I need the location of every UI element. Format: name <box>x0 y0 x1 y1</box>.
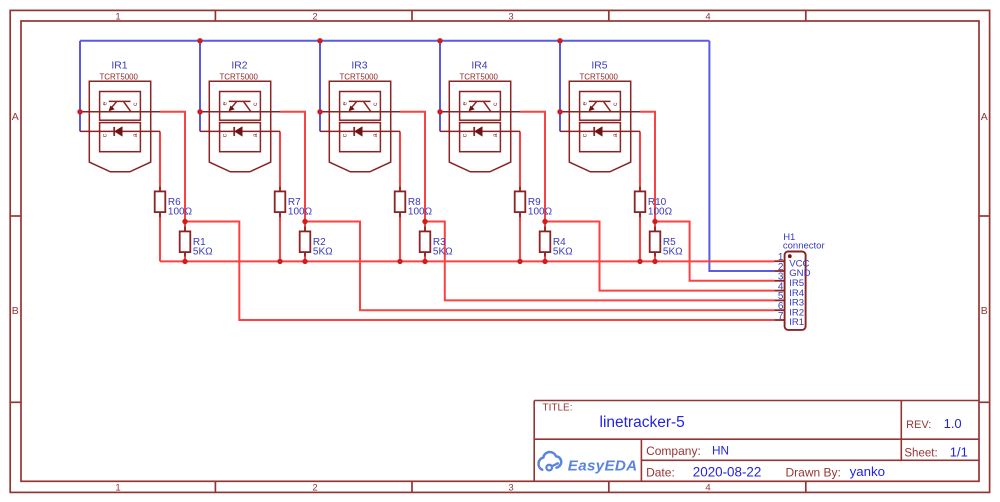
svg-text:1: 1 <box>115 11 120 22</box>
svg-text:5KΩ: 5KΩ <box>553 246 573 257</box>
junction VCC bus x=400 <box>397 259 402 264</box>
wire GND drop to IR4 <box>439 41 441 132</box>
R3 pin stubs <box>424 227 426 257</box>
junction divider node x=655 <box>652 219 657 224</box>
junction divider node x=185 <box>182 219 187 224</box>
svg-text:B: B <box>12 305 19 317</box>
svg-text:100Ω: 100Ω <box>648 206 673 217</box>
svg-text:REV:: REV: <box>906 419 931 431</box>
svg-text:a: a <box>372 133 379 137</box>
svg-text:IR5: IR5 <box>591 60 607 71</box>
svg-text:3: 3 <box>508 11 513 22</box>
pin 4 lead <box>774 290 784 292</box>
pin 5 lead <box>774 299 784 301</box>
junction VCC bus x=305 <box>302 259 307 264</box>
transistor collector lead <box>484 101 491 111</box>
LED box <box>100 123 141 152</box>
IR sensor IR2 TCRT5000 <box>200 60 280 172</box>
junction GND rail x=320 <box>317 38 322 43</box>
LED box <box>580 123 621 152</box>
pin c-a row <box>200 130 280 132</box>
sensor outline <box>569 81 630 172</box>
svg-text:4: 4 <box>705 11 710 22</box>
junction emitter pin x=320 <box>317 109 322 114</box>
wire R5 top stub <box>654 222 656 232</box>
svg-text:2: 2 <box>312 11 317 22</box>
svg-text:IR1: IR1 <box>789 317 804 328</box>
svg-text:linetracker-5: linetracker-5 <box>600 414 685 431</box>
LED diode cathode bar <box>593 127 595 136</box>
LED box <box>220 123 261 152</box>
wire IR3 LED anode to R8 <box>399 131 401 191</box>
svg-text:Drawn By:: Drawn By: <box>786 465 841 479</box>
wire IR3 collector to R pull network <box>400 112 425 222</box>
R10 pin stubs <box>639 187 641 218</box>
R5 pin stubs <box>654 227 656 257</box>
R8 pin stubs <box>399 187 401 218</box>
svg-text:IR2: IR2 <box>231 60 247 71</box>
svg-text:2: 2 <box>312 483 317 494</box>
LED diode triangle <box>355 127 362 136</box>
wire IR2 LED anode to R7 <box>279 131 281 191</box>
wire signal IR3 to connector <box>425 222 774 301</box>
svg-text:B: B <box>981 305 988 317</box>
sensor outline <box>329 81 390 172</box>
svg-text:e: e <box>582 101 589 105</box>
wire R3 top stub <box>424 222 426 232</box>
wire IR4 collector to R pull network <box>520 112 545 222</box>
wire R2 bottom to VCC bus <box>304 252 306 262</box>
emitter arrowhead <box>469 106 475 112</box>
svg-text:e: e <box>102 101 109 105</box>
junction VCC bus x=425 <box>422 259 427 264</box>
IR sensor IR4 TCRT5000 <box>440 60 520 172</box>
EasyEDA logo <box>539 452 638 474</box>
junction divider node x=425 <box>422 219 427 224</box>
transistor Q base bar <box>589 100 611 102</box>
transistor emitter lead <box>592 101 597 107</box>
svg-text:TCRT5000: TCRT5000 <box>219 73 258 82</box>
junction VCC bus x=545 <box>542 259 547 264</box>
wire signal IR2 to connector <box>305 222 774 311</box>
transistor collector lead <box>364 101 371 111</box>
junction VCC bus x=655 <box>652 259 657 264</box>
svg-text:TCRT5000: TCRT5000 <box>99 73 138 82</box>
junction emitter pin x=440 <box>437 109 442 114</box>
transistor Q base bar <box>349 100 371 102</box>
LED diode triangle <box>235 127 242 136</box>
junction VCC bus x=185 <box>182 259 187 264</box>
transistor emitter lead <box>352 101 357 107</box>
R4 pin stubs <box>544 227 546 257</box>
svg-text:5KΩ: 5KΩ <box>663 246 683 257</box>
svg-text:TCRT5000: TCRT5000 <box>459 73 498 82</box>
transistor Q base bar <box>229 100 251 102</box>
wire GND drop to IR1 <box>79 41 81 132</box>
wire R1 bottom to VCC bus <box>184 252 186 262</box>
IR sensor IR3 TCRT5000 <box>320 60 400 172</box>
svg-text:IR1: IR1 <box>111 60 127 71</box>
svg-text:a: a <box>132 133 139 137</box>
svg-text:a: a <box>252 133 259 137</box>
LED diode cathode bar <box>353 127 355 136</box>
pin c-a row <box>80 130 160 132</box>
pin 2 lead <box>774 270 784 272</box>
resistor R4 5K&#937; <box>540 231 573 257</box>
svg-text:100Ω: 100Ω <box>288 206 313 217</box>
LED diode cathode bar <box>473 127 475 136</box>
resistor R1 5K&#937; <box>180 231 213 257</box>
junction GND rail x=440 <box>437 38 442 43</box>
svg-text:1: 1 <box>115 483 120 494</box>
phototransistor box <box>220 92 261 121</box>
pin 1 marker <box>788 254 792 258</box>
svg-text:1.0: 1.0 <box>944 416 962 431</box>
svg-text:5KΩ: 5KΩ <box>193 246 213 257</box>
wire GND drop to IR2 <box>199 41 201 132</box>
svg-text:7: 7 <box>778 311 784 322</box>
svg-text:IR3: IR3 <box>351 60 367 71</box>
wire GND drop to IR5 <box>559 41 561 132</box>
wire VCC bus to connector pin 1 <box>160 260 774 262</box>
svg-text:TCRT5000: TCRT5000 <box>579 73 618 82</box>
junction divider node x=305 <box>302 219 307 224</box>
transistor emitter lead <box>112 101 117 107</box>
transistor emitter lead <box>232 101 237 107</box>
svg-text:2020-08-22: 2020-08-22 <box>693 465 762 480</box>
wire R9 bottom to VCC bus <box>519 212 521 261</box>
resistor R7 100&#937; <box>275 191 313 217</box>
pin 3 lead <box>774 280 784 282</box>
wire signal IR5 to connector <box>655 222 774 281</box>
junction VCC bus x=520 <box>517 259 522 264</box>
LED box <box>340 123 381 152</box>
svg-text:e: e <box>342 101 349 105</box>
svg-text:e: e <box>462 101 469 105</box>
junction VCC bus x=280 <box>277 259 282 264</box>
resistor R3 5K&#937; <box>420 231 453 257</box>
svg-text:3: 3 <box>508 483 513 494</box>
wire R4 bottom to VCC bus <box>544 252 546 262</box>
svg-text:5KΩ: 5KΩ <box>433 246 453 257</box>
transistor collector lead <box>124 101 131 111</box>
title block <box>534 401 979 482</box>
wire IR1 LED anode to R6 <box>159 131 161 191</box>
svg-text:e: e <box>222 101 229 105</box>
R7 pin stubs <box>279 187 281 218</box>
resistor R2 5K&#937; <box>300 231 333 257</box>
wire signal IR1 to connector <box>185 222 774 321</box>
connector H1 <box>774 232 824 330</box>
wire GND top rail <box>80 40 709 42</box>
emitter arrowhead <box>589 106 595 112</box>
wire IR2 collector to R pull network <box>280 112 305 222</box>
wire R6 bottom to VCC bus <box>159 212 161 261</box>
R9 pin stubs <box>519 187 521 218</box>
IR sensor IR5 TCRT5000 <box>560 60 640 172</box>
wire R1 top stub <box>184 222 186 232</box>
junction GND rail x=200 <box>197 38 202 43</box>
wire IR1 collector to R pull network <box>160 112 185 222</box>
pin e-c row <box>440 111 520 113</box>
pin e-c row <box>80 111 160 113</box>
wire R7 bottom to VCC bus <box>279 212 281 261</box>
transistor collector lead <box>604 101 611 111</box>
pin e-c row <box>320 111 400 113</box>
transistor Q base bar <box>469 100 491 102</box>
resistor R5 5K&#937; <box>650 231 683 257</box>
svg-text:a: a <box>612 133 619 137</box>
svg-text:A: A <box>981 111 988 123</box>
svg-text:5KΩ: 5KΩ <box>313 246 333 257</box>
pin c-a row <box>440 130 520 132</box>
resistor R10 100&#937; <box>635 191 673 217</box>
junction GND rail x=560 <box>557 38 562 43</box>
pin e-c row <box>200 111 280 113</box>
phototransistor box <box>460 92 501 121</box>
wire signal IR4 to connector <box>545 222 774 291</box>
svg-text:Date:: Date: <box>646 465 675 479</box>
LED diode cathode bar <box>113 127 115 136</box>
transistor collector lead <box>244 101 251 111</box>
wire GND drop to IR3 <box>319 41 321 132</box>
junction divider node x=545 <box>542 219 547 224</box>
svg-text:4: 4 <box>705 483 710 494</box>
wire R10 bottom to VCC bus <box>639 212 641 261</box>
phototransistor box <box>100 92 141 121</box>
pin 1 lead <box>774 260 784 262</box>
svg-text:Company:: Company: <box>646 444 701 458</box>
wire IR4 LED anode to R9 <box>519 131 521 191</box>
wire IR5 collector to R pull network <box>640 112 655 222</box>
junction emitter pin x=80 <box>77 109 82 114</box>
R2 pin stubs <box>304 227 306 257</box>
wire R4 top stub <box>544 222 546 232</box>
wire R2 top stub <box>304 222 306 232</box>
wire R8 bottom to VCC bus <box>399 212 401 261</box>
svg-text:TITLE:: TITLE: <box>543 402 573 413</box>
junction emitter pin x=560 <box>557 109 562 114</box>
svg-text:A: A <box>12 111 19 123</box>
svg-text:100Ω: 100Ω <box>168 206 193 217</box>
wire IR5 LED anode to R10 <box>639 131 641 191</box>
LED diode triangle <box>475 127 482 136</box>
LED diode cathode bar <box>233 127 235 136</box>
svg-text:yanko: yanko <box>850 464 885 479</box>
R1 pin stubs <box>184 227 186 257</box>
wire R3 bottom to VCC bus <box>424 252 426 262</box>
resistor R6 100&#937; <box>155 191 193 217</box>
pin c-a row <box>560 130 640 132</box>
svg-text:HN: HN <box>712 444 729 458</box>
svg-text:TCRT5000: TCRT5000 <box>339 73 378 82</box>
emitter arrowhead <box>349 106 355 112</box>
LED box <box>460 123 501 152</box>
svg-text:1/1: 1/1 <box>950 444 968 459</box>
sensor outline <box>209 81 270 172</box>
transistor emitter lead <box>472 101 477 107</box>
svg-text:100Ω: 100Ω <box>528 206 553 217</box>
svg-text:Sheet:: Sheet: <box>904 447 937 459</box>
sensor outline <box>449 81 510 172</box>
svg-text:a: a <box>492 133 499 137</box>
junction emitter pin x=200 <box>197 109 202 114</box>
pin e-c row <box>560 111 640 113</box>
pin 7 lead <box>774 319 784 321</box>
svg-text:IR4: IR4 <box>471 60 487 71</box>
svg-text:100Ω: 100Ω <box>408 206 433 217</box>
phototransistor box <box>580 92 621 121</box>
emitter arrowhead <box>229 106 235 112</box>
transistor Q base bar <box>109 100 131 102</box>
svg-text:EasyEDA: EasyEDA <box>568 457 638 474</box>
wire GND to connector pin 2 <box>709 41 774 271</box>
emitter arrowhead <box>109 106 115 112</box>
junction VCC bus x=640 <box>637 259 642 264</box>
sensor outline <box>89 81 150 172</box>
LED diode triangle <box>595 127 602 136</box>
pin c-a row <box>320 130 400 132</box>
pin 6 lead <box>774 309 784 311</box>
wire R5 bottom to VCC bus <box>654 252 656 262</box>
resistor R9 100&#937; <box>515 191 553 217</box>
svg-text:connector: connector <box>783 241 825 252</box>
LED diode triangle <box>115 127 122 136</box>
R6 pin stubs <box>159 187 161 218</box>
IR sensor IR1 TCRT5000 <box>80 60 160 172</box>
resistor R8 100&#937; <box>395 191 433 217</box>
phototransistor box <box>340 92 381 121</box>
